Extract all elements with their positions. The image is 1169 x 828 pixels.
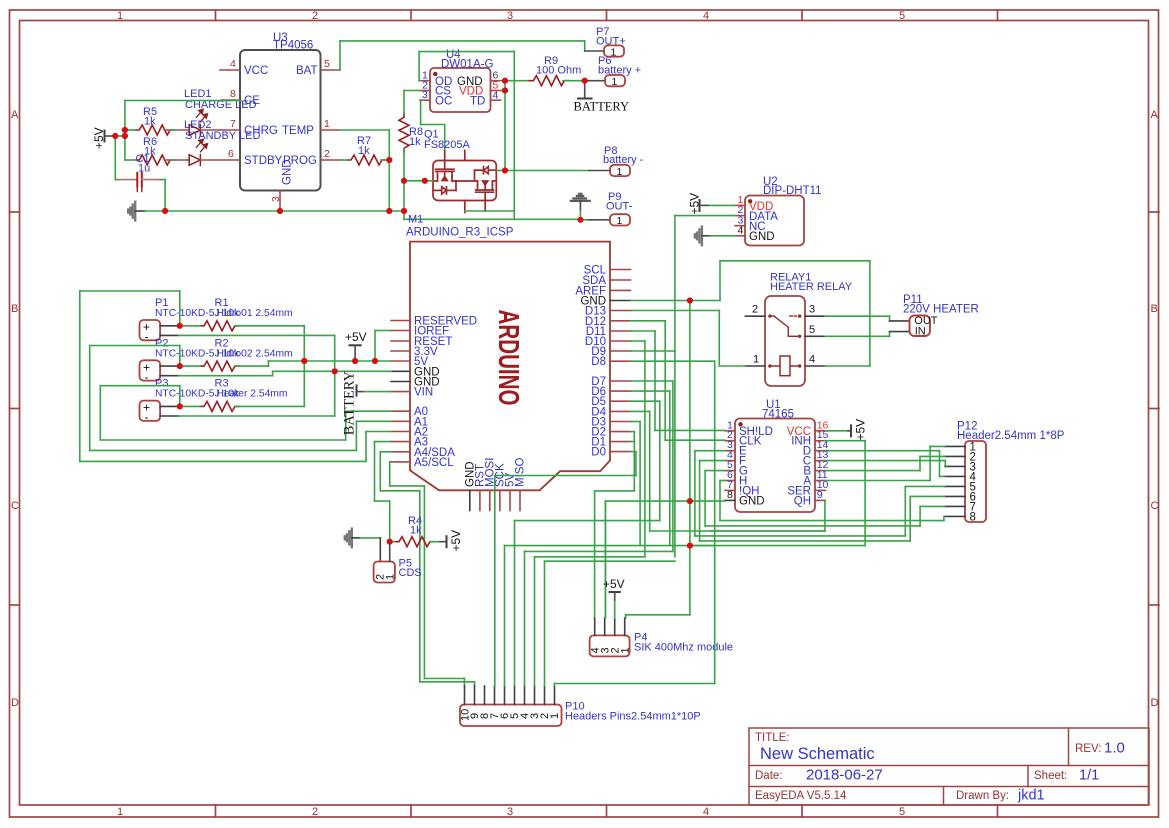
svg-text:-: -	[145, 410, 149, 424]
LED2 symbol (STDBY row)	[164, 139, 221, 165]
wire U2 VDD	[709, 204, 735, 206]
ground (P5)	[345, 529, 352, 548]
IC U4 DW01A-G body	[430, 49, 493, 112]
wire ICSP row to D0	[495, 475, 636, 477]
+5V flag (U2)	[688, 193, 710, 215]
+5V flag (left)	[92, 127, 115, 149]
M1 right pin stubs	[610, 270, 631, 452]
svg-text:8: 8	[970, 511, 976, 523]
svg-text:Date:: Date:	[755, 770, 783, 782]
wire D11 to U1 SH!LD	[631, 331, 726, 430]
wire gnd vertical (relay to P4)	[626, 301, 690, 618]
resistor R9 100 Ohm	[529, 55, 581, 86]
svg-text:1k: 1k	[409, 136, 421, 148]
svg-text:OUT-: OUT-	[606, 201, 633, 213]
wire U1 QH down-left	[710, 500, 825, 531]
svg-text:battery -: battery -	[603, 154, 644, 166]
BATTERY net flag (VIN)	[342, 370, 392, 435]
wire relay pin3 to P11 OUT	[825, 316, 890, 321]
svg-text:D0: D0	[591, 447, 606, 459]
svg-text:3: 3	[507, 806, 513, 818]
bus row P10 pin5	[515, 521, 660, 686]
module M1 ARDUINO_R3_ICSP outline	[406, 214, 610, 491]
wire branch to D8 vertical	[690, 545, 715, 547]
svg-text:1/1: 1/1	[1079, 768, 1099, 784]
svg-text:Headers Pins2.54mm1*10P: Headers Pins2.54mm1*10P	[565, 711, 701, 723]
svg-text:1: 1	[753, 354, 759, 366]
svg-text:jkd1: jkd1	[1017, 788, 1045, 804]
svg-text:100 Ohm: 100 Ohm	[536, 65, 581, 77]
svg-text:1: 1	[617, 215, 623, 227]
connector P10 Headers	[460, 701, 701, 727]
connector P4 SIK module	[590, 632, 733, 657]
svg-text:R2: R2	[215, 337, 229, 349]
svg-text:TEMP: TEMP	[282, 125, 314, 137]
wire U2 DATA down	[675, 216, 735, 557]
bus row D7-P10 pin4	[525, 551, 673, 686]
ground (P9, up-pointing)	[571, 194, 590, 220]
TITLE BLOCK	[749, 728, 1149, 805]
M1 right pin names	[575, 265, 606, 459]
svg-text:EasyEDA V5.5.14: EasyEDA V5.5.14	[755, 790, 847, 802]
wire D5 down	[631, 401, 660, 520]
svg-text:+5V: +5V	[449, 530, 463, 552]
svg-text:1: 1	[385, 574, 397, 580]
bus row F to P12 pin6	[700, 496, 945, 541]
wire U2 GND	[710, 235, 735, 237]
wire U1 D to P12 pin4	[825, 451, 945, 477]
svg-text:1: 1	[117, 806, 123, 818]
svg-text:QH: QH	[794, 495, 811, 507]
relay pin stubs	[745, 316, 825, 366]
svg-text:3: 3	[422, 89, 428, 101]
svg-text:Heater 2.54mm: Heater 2.54mm	[217, 389, 288, 400]
svg-text:1: 1	[549, 713, 561, 719]
bus row H-QH	[650, 530, 825, 532]
wire D10 down	[631, 341, 645, 557]
svg-text:STANDBY LED: STANDBY LED	[185, 130, 260, 142]
wire A3 branch down to R4 node	[375, 442, 392, 542]
U1 left pin numbers	[727, 419, 733, 491]
resistor R1	[200, 297, 239, 331]
svg-text:Drawn By:: Drawn By:	[956, 790, 1009, 802]
svg-text:C: C	[1151, 500, 1159, 512]
svg-text:1: 1	[611, 46, 617, 58]
IC U3 TP4056 body	[240, 32, 321, 191]
wire IOREF branch	[375, 331, 391, 362]
svg-text:TP4056: TP4056	[273, 40, 313, 52]
svg-text:B: B	[1151, 303, 1158, 315]
U2 pin stubs	[735, 205, 745, 235]
svg-text:Hidro01 2.54mm: Hidro01 2.54mm	[217, 308, 293, 319]
wire U1 GND row	[605, 501, 725, 617]
wire U1 A to P12 pin1	[825, 446, 945, 480]
svg-text:IN: IN	[915, 326, 926, 338]
svg-text:SIK 400Mhz module: SIK 400Mhz module	[634, 642, 733, 654]
wire OC to Q1 gate	[420, 100, 445, 150]
svg-text:1.0: 1.0	[1104, 740, 1125, 757]
svg-text:2: 2	[752, 304, 758, 316]
svg-text:3: 3	[809, 304, 815, 316]
svg-text:STDBY: STDBY	[244, 155, 283, 167]
svg-text:GND: GND	[414, 377, 440, 389]
bus row INH-P10 pin6	[505, 546, 866, 686]
svg-text:4: 4	[230, 58, 236, 70]
wire P4 pin4 from D1/D2	[595, 442, 635, 619]
svg-text:2: 2	[312, 10, 318, 22]
wire D7 down	[631, 381, 673, 551]
wire gnd to P5 pin2	[352, 538, 381, 562]
IC U1 74165 body	[735, 399, 815, 512]
bus row D0-P10 pin2	[545, 561, 675, 686]
svg-text:TITLE:: TITLE:	[755, 732, 790, 744]
relay coil	[768, 356, 801, 376]
resistor R6 1k	[135, 136, 174, 165]
wire ICSP to P10 pin7	[494, 476, 496, 687]
M1 left pin stubs	[391, 321, 410, 462]
U1 left pin names	[739, 426, 773, 498]
wire R1 row to V1	[180, 326, 304, 407]
svg-text:2018-06-27: 2018-06-27	[806, 767, 883, 784]
wire CS to R8	[404, 91, 420, 212]
wire U1 B to P12 pin2	[825, 456, 945, 470]
M1 ICSP pin names (rotated)	[464, 458, 526, 487]
wire loop3 P3+ to A0	[100, 386, 391, 440]
svg-text:CDS: CDS	[399, 567, 422, 579]
wire +5V to node	[115, 101, 389, 212]
connector P1	[140, 297, 293, 344]
svg-text:1u: 1u	[138, 163, 150, 175]
P12 pin stubs	[945, 446, 965, 516]
svg-text:+5V: +5V	[603, 577, 625, 591]
svg-text:3: 3	[507, 10, 513, 22]
svg-text:5: 5	[809, 324, 815, 336]
svg-text:+5V: +5V	[854, 419, 868, 441]
svg-text:5: 5	[324, 58, 330, 70]
wire U1 H down	[720, 481, 725, 521]
svg-text:5: 5	[493, 80, 499, 92]
wire U1 G down	[705, 471, 725, 526]
svg-text:4: 4	[703, 10, 709, 22]
bus row H to P12 pin8	[720, 516, 944, 520]
svg-text:GND: GND	[282, 159, 294, 185]
P4 pin stubs	[595, 618, 625, 635]
svg-text:D: D	[11, 697, 19, 709]
U1 left pin stubs	[725, 431, 735, 501]
svg-text:1: 1	[612, 76, 618, 88]
svg-text:4: 4	[703, 806, 709, 818]
svg-text:A: A	[11, 109, 19, 121]
svg-text:1k: 1k	[144, 116, 156, 128]
wire U1 C to P12 pin3	[825, 461, 945, 467]
+5V flag (R4)	[431, 530, 464, 552]
wire A4 branch to P10 pin9	[380, 452, 474, 686]
+5V flag (U1 VCC)	[825, 419, 868, 441]
wire D8 to P10 pin1	[555, 361, 715, 686]
svg-text:battery +: battery +	[598, 65, 641, 77]
svg-text:HEATER RELAY: HEATER RELAY	[770, 281, 853, 293]
connector P5 CDS	[374, 542, 422, 583]
svg-text:1k: 1k	[358, 145, 370, 157]
svg-text:OC: OC	[435, 96, 452, 108]
svg-text:5: 5	[899, 806, 905, 818]
svg-text:R3: R3	[215, 378, 229, 390]
Q1 top/bottom pin stubs	[444, 151, 446, 161]
resistor R7 1k	[347, 135, 386, 165]
wire D9 to DATA vertical	[631, 350, 675, 352]
LED1 symbol (CHRG row)	[164, 109, 221, 135]
ground (U2)	[695, 227, 710, 246]
Q1 left diode	[433, 189, 442, 191]
connector P3	[140, 378, 288, 425]
wire D6 down	[631, 391, 670, 545]
svg-text:D8: D8	[591, 356, 606, 368]
svg-text:REV:: REV:	[1075, 743, 1101, 755]
svg-text:5: 5	[899, 10, 905, 22]
connector P8 battery-	[589, 145, 644, 178]
wire loop2 P2+ to A1	[90, 346, 391, 451]
U3 pin numbers	[228, 58, 330, 202]
svg-text:VCC: VCC	[244, 65, 268, 77]
wire A5 branch to P10 pin10	[390, 462, 465, 686]
svg-text:BAT: BAT	[296, 65, 318, 77]
svg-text:+5V: +5V	[92, 127, 106, 149]
svg-text:BATTERY: BATTERY	[574, 100, 630, 114]
wire P2- to GND row	[179, 371, 391, 375]
M1 ICSP bottom stubs	[470, 490, 520, 510]
U4 pin names	[435, 76, 485, 108]
svg-text:GND: GND	[580, 296, 606, 308]
wire TEMP loop	[340, 130, 389, 211]
wire U1 F down	[700, 461, 725, 541]
junction dots layer	[112, 78, 693, 549]
wire D2 elbow to D1 row	[631, 432, 635, 442]
resistor R5 1k	[135, 106, 174, 135]
wire D1 row	[631, 441, 635, 443]
connector P2	[140, 337, 293, 384]
svg-text:TD: TD	[470, 96, 485, 108]
svg-text:DW01A-G: DW01A-G	[441, 59, 493, 71]
wire U1 E down	[695, 451, 725, 536]
wire D0 down	[631, 452, 636, 476]
svg-text:OUT+: OUT+	[596, 35, 626, 47]
wire R9 to battery+ node	[563, 80, 585, 82]
ground (charger)	[128, 202, 145, 221]
+5V flag (P4)	[603, 577, 625, 618]
U2 pin names	[749, 201, 778, 243]
wire R2 row to 5V rail	[180, 361, 391, 366]
svg-text:GND: GND	[749, 231, 775, 243]
svg-text:ARDUINO: ARDUINO	[492, 310, 524, 406]
svg-text:8: 8	[727, 489, 733, 501]
svg-text:-: -	[145, 330, 149, 344]
resistor R3	[200, 378, 239, 412]
wire P1-/P3- gnd net	[179, 335, 335, 416]
svg-text:1: 1	[617, 166, 623, 178]
+5V flag (rail)	[345, 330, 367, 361]
svg-text:New Schematic: New Schematic	[760, 745, 875, 763]
BATTERY net flag (top)	[574, 81, 630, 114]
wire OD loop over top	[419, 52, 514, 220]
wire U1 INH down	[825, 441, 865, 546]
relay RELAY1 body	[765, 272, 853, 387]
svg-text:3: 3	[270, 196, 282, 202]
bus row G to P12 pin7	[705, 506, 945, 526]
svg-text:2: 2	[324, 148, 330, 160]
U4 pin numbers	[422, 70, 499, 102]
IC U2 DIP-DHT11 body	[745, 176, 822, 246]
svg-text:Header2.54mm 1*8P: Header2.54mm 1*8P	[957, 430, 1065, 442]
P10 pin stubs	[465, 686, 555, 705]
Q1 right diode	[488, 169, 496, 171]
svg-text:A5/SCL: A5/SCL	[414, 457, 454, 469]
wire GND loop over relay	[631, 261, 870, 366]
connector P12 Header	[957, 421, 1065, 524]
svg-text:MISO: MISO	[515, 458, 527, 487]
svg-text:1: 1	[324, 118, 330, 130]
bus row D10-P10 pin3	[535, 557, 645, 686]
svg-text:1k: 1k	[410, 525, 422, 537]
resistor R2	[200, 337, 239, 371]
svg-text:74165: 74165	[762, 409, 794, 421]
M1 left pin names	[414, 316, 477, 470]
wire D13 to relay pin1	[631, 311, 746, 367]
U4 pin stubs	[420, 81, 501, 101]
svg-text:1: 1	[117, 10, 123, 22]
Q1 right mosfet	[476, 189, 494, 191]
svg-text:FS8205A: FS8205A	[424, 139, 471, 151]
svg-text:C: C	[11, 500, 19, 512]
wire gnd rail to P9	[389, 211, 580, 219]
svg-text:Sheet:: Sheet:	[1034, 770, 1067, 782]
svg-text:GND: GND	[739, 495, 765, 507]
svg-text:ARDUINO_R3_ICSP: ARDUINO_R3_ICSP	[406, 227, 514, 239]
svg-text:Hidro02 2.54mm: Hidro02 2.54mm	[217, 348, 293, 359]
svg-text:A: A	[1151, 109, 1159, 121]
svg-text:-: -	[145, 370, 149, 384]
svg-text:+5V: +5V	[345, 330, 367, 344]
svg-text:9: 9	[817, 489, 823, 501]
connector P6 battery+	[585, 55, 641, 88]
svg-text:M1: M1	[408, 214, 423, 226]
U3 pin names	[244, 65, 318, 185]
svg-text:+5V: +5V	[688, 193, 702, 215]
resistor R8 1k (vertical)	[399, 113, 423, 152]
connector P9 OUT-	[581, 191, 633, 227]
relay switch contacts	[768, 314, 801, 338]
Q1 left mosfet	[436, 168, 454, 170]
svg-text:D: D	[1151, 697, 1159, 709]
svg-text:B: B	[11, 303, 18, 315]
connector P11 220V HEATER	[890, 294, 979, 338]
wire VDD junction chain	[501, 81, 530, 171]
wire D3 down	[631, 422, 641, 546]
svg-text:R1: R1	[215, 297, 229, 309]
wire BAT up-over	[340, 41, 585, 70]
wire relay pin5 to P11 IN	[825, 332, 890, 337]
svg-text:4: 4	[738, 224, 744, 236]
capacitor C1 1u	[118, 153, 160, 192]
svg-text:220V HEATER: 220V HEATER	[903, 304, 979, 316]
wire P4 pin1 jog	[625, 615, 627, 618]
svg-text:6: 6	[228, 148, 234, 160]
wire D4 down	[631, 411, 650, 531]
bus row E to P12 pin5	[695, 486, 945, 536]
U3 pin stubs	[220, 70, 340, 210]
transistor Q1 FS8205A body	[424, 129, 496, 213]
svg-text:7: 7	[230, 118, 236, 130]
wire loop1 P1+ to A2	[80, 291, 391, 461]
wire D12 to U1 CLK	[631, 321, 726, 440]
connector P7 OUT+	[585, 26, 626, 58]
svg-text:2: 2	[312, 806, 318, 818]
relay pin numbers	[752, 304, 815, 366]
svg-text:4: 4	[809, 354, 815, 366]
wire P4 pin3 up	[604, 501, 606, 618]
U1 right pin stubs	[815, 431, 826, 501]
resistor R4 1k	[390, 515, 434, 547]
svg-text:1: 1	[620, 647, 632, 653]
svg-text:DIP-DHT11: DIP-DHT11	[763, 185, 822, 197]
svg-text:BATTERY: BATTERY	[342, 370, 358, 435]
Q1 left/right wires	[404, 171, 589, 212]
